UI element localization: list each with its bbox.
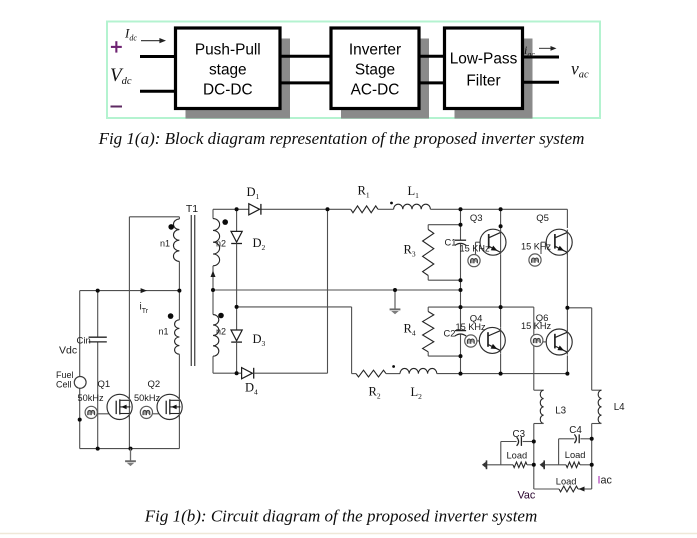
svg-text:Cin: Cin <box>77 336 91 347</box>
wire secondary bottom rail <box>213 372 242 374</box>
wire D4 riser to top rail <box>327 209 329 373</box>
dot polarity n2 upper <box>222 219 228 225</box>
svg-text:Q5: Q5 <box>536 213 549 224</box>
bottom rule <box>0 533 697 535</box>
arrow up on n2 lead <box>211 271 216 278</box>
wire Q4 emitter to bottom rail <box>500 353 502 373</box>
wire Low-Pass output lower <box>523 81 560 84</box>
svg-text:15 KHz: 15 KHz <box>521 321 552 331</box>
resistor R1 <box>351 206 378 213</box>
svg-text:Low-Pass: Low-Pass <box>450 51 518 68</box>
svg-text:n2: n2 <box>216 239 226 249</box>
ground arrow left 1 <box>486 460 488 469</box>
svg-text:D2: D2 <box>253 236 266 252</box>
dot polarity n2 lower <box>218 313 224 319</box>
pulse source 15KHz Q3 <box>468 255 480 267</box>
node Q3 collector rail <box>499 207 503 211</box>
diode D2 <box>231 231 242 242</box>
node Q3 collector <box>499 224 503 228</box>
capacitor C3 <box>517 437 519 446</box>
winding n1 upper <box>178 217 180 219</box>
pulse source 15KHz Q5 <box>529 254 541 266</box>
wire Inverter to Low-Pass lower <box>419 81 445 84</box>
svg-text:Vdc: Vdc <box>110 65 132 87</box>
ground center <box>394 290 396 309</box>
svg-text:Load: Load <box>565 450 586 460</box>
wire Push-Pull to Inverter upper <box>280 55 331 58</box>
wire primary top link <box>129 216 179 218</box>
svg-text:15 KHz: 15 KHz <box>456 322 487 332</box>
wire Cin branch lower <box>97 342 99 449</box>
resistor R3 with stubs <box>428 224 460 226</box>
svg-text:L4: L4 <box>614 402 625 413</box>
pulse source 50kHz Q2 <box>140 406 152 418</box>
block Inverter Stage AC-DC <box>331 28 419 109</box>
svg-text:R4: R4 <box>404 322 416 338</box>
wire Q5 emitter to mid rail <box>566 254 568 330</box>
load resistor 2 wire <box>544 464 566 466</box>
node C4 top <box>590 437 594 441</box>
inductor L4 <box>592 389 602 391</box>
node D1 anode <box>235 207 239 211</box>
inductor L3 <box>534 389 544 391</box>
svg-text:Q1: Q1 <box>98 379 111 390</box>
dot polarity n1 upper <box>168 224 174 230</box>
shadow of Push-Pull block <box>186 39 291 119</box>
wire Push-Pull to Inverter lower <box>280 81 331 84</box>
diode D1 <box>249 204 260 215</box>
node Cin bottom <box>96 447 100 451</box>
svg-text:Q2: Q2 <box>148 379 161 390</box>
transistor Q3 <box>480 229 506 255</box>
node R4 bottom <box>459 354 463 358</box>
svg-text:L3: L3 <box>555 406 566 417</box>
node rectifier output <box>326 207 330 211</box>
wire D2-D3 rail <box>237 306 352 308</box>
wire center-tap rail to ground and C-column <box>213 289 461 291</box>
load resistor 1 <box>513 462 527 468</box>
snubber column C1 C2 <box>460 209 462 240</box>
pulse source 15KHz Q6 <box>531 334 543 346</box>
wire fuel-cell left column <box>79 291 81 449</box>
node Q3 Q4 midpoint <box>499 305 503 309</box>
svg-text:Vac: Vac <box>518 490 536 502</box>
svg-text:stage: stage <box>209 62 247 79</box>
wire Q3 emitter to mid rail <box>500 255 502 328</box>
svg-text:50kHz: 50kHz <box>134 393 160 403</box>
wire bottom rail primary <box>80 448 180 450</box>
diode D4 <box>242 368 253 379</box>
ground arrow left 2 <box>543 460 545 469</box>
svg-text:L1: L1 <box>408 184 420 200</box>
node D4 anode <box>235 371 239 375</box>
wire top rail to inverter <box>430 208 567 210</box>
node D2 D3 junction <box>235 305 239 309</box>
svg-text:C2: C2 <box>444 329 456 339</box>
svg-text:DC-DC: DC-DC <box>203 82 253 99</box>
svg-text:Q3: Q3 <box>470 213 483 224</box>
wire Inverter to Low-Pass upper <box>419 55 445 58</box>
winding n1 lower <box>178 291 180 320</box>
node load2 out <box>590 463 594 467</box>
wire Vdc+ input to Push-Pull block <box>140 55 176 58</box>
label plus terminal <box>111 46 122 48</box>
svg-text:C1: C1 <box>445 238 457 248</box>
resistor R4 with stubs <box>428 306 460 308</box>
diode D3 <box>231 330 242 341</box>
load block C4 left side <box>558 439 560 465</box>
svg-text:50kHz: 50kHz <box>78 393 104 403</box>
node primary center tap <box>177 289 181 293</box>
svg-text:C4: C4 <box>569 425 582 436</box>
arrow on bottom load <box>579 487 585 492</box>
label minus terminal <box>111 106 123 108</box>
node center tap end <box>459 288 463 292</box>
node Cin top <box>96 289 100 293</box>
capacitor Cin <box>89 336 107 338</box>
svg-text:Stage: Stage <box>355 62 395 79</box>
svg-text:Iac: Iac <box>598 475 613 487</box>
inductor L2 <box>400 368 437 373</box>
wire Q1 drain from transformer top <box>128 217 130 449</box>
winding n2 lower <box>212 290 214 315</box>
svg-text:Idc: Idc <box>124 26 137 43</box>
capacitor C4 <box>574 434 576 443</box>
svg-text:L2: L2 <box>411 385 423 401</box>
svg-text:15 KHz: 15 KHz <box>521 242 552 252</box>
transistor Q4 <box>479 327 505 353</box>
wire Q5 collector column <box>566 209 568 228</box>
capacitor C1 <box>455 239 466 241</box>
wire Low-Pass output upper <box>523 56 560 59</box>
node C3 top <box>532 440 536 444</box>
wire center-tap rail primary <box>80 290 180 292</box>
svg-text:D3: D3 <box>253 332 266 348</box>
wire Q6 emitter to bottom rail <box>566 355 568 373</box>
wire Q3 collector column <box>500 209 502 229</box>
wire Cin branch upper <box>97 291 99 338</box>
svg-text:Load: Load <box>556 476 577 486</box>
transformer core T1 <box>190 215 192 366</box>
shadow of Inverter block <box>341 39 429 119</box>
svg-text:D1: D1 <box>247 185 260 201</box>
svg-text:n1: n1 <box>160 239 170 249</box>
svg-text:Push-Pull: Push-Pull <box>195 42 261 59</box>
transistor Q1 <box>107 394 132 419</box>
wire Vdc- input to Push-Pull block <box>140 90 176 93</box>
load resistor 3 <box>559 486 578 492</box>
ground bottom left <box>130 449 132 461</box>
rectifier column D2 D3 <box>236 209 238 231</box>
load resistor 1 wire <box>487 464 514 466</box>
node Q6 emitter <box>565 372 569 376</box>
dot polarity n1 lower <box>168 313 174 319</box>
node L2 out <box>459 372 463 376</box>
node Q5 Q6 midpoint <box>565 306 569 310</box>
load block C3 left side <box>500 442 502 465</box>
wire secondary top rail <box>213 208 249 210</box>
winding n2 upper <box>212 209 214 218</box>
wire mid rail A to L3 <box>461 306 534 308</box>
pulse source 50kHz Q1 <box>85 406 97 418</box>
node fuel cell lower <box>78 418 82 422</box>
svg-text:n1: n1 <box>158 327 168 337</box>
svg-text:D4: D4 <box>245 381 258 397</box>
wire inverter bottom rail <box>461 373 568 375</box>
inductor L1 <box>394 204 431 209</box>
svg-text:C3: C3 <box>513 429 526 440</box>
svg-text:Fig 1(b): Circuit diagram of t: Fig 1(b): Circuit diagram of the propose… <box>144 507 538 526</box>
node Q4 emitter <box>499 372 503 376</box>
svg-text:T1: T1 <box>186 203 198 215</box>
load block C4 top wire <box>559 438 575 440</box>
load resistor 2 <box>566 462 580 468</box>
transistor Q2 <box>157 394 182 419</box>
figure 1(a) frame <box>107 22 600 119</box>
arrow iTr on rail <box>141 288 147 293</box>
shadow of Low-Pass block <box>455 39 533 119</box>
svg-text:Cell: Cell <box>56 380 72 390</box>
wire mid rail B to L4 <box>567 307 591 309</box>
svg-text:R1: R1 <box>358 184 370 200</box>
svg-text:AC-DC: AC-DC <box>351 82 400 99</box>
load block C3 top wire <box>501 441 517 443</box>
capacitor C2 <box>455 330 466 332</box>
svg-text:iTr: iTr <box>140 302 149 315</box>
block Push-Pull stage DC-DC <box>176 28 281 109</box>
node R4 top <box>459 305 463 309</box>
svg-text:Fig 1(a): Block diagram repres: Fig 1(a): Block diagram representation o… <box>98 129 585 148</box>
node load1 out <box>532 463 536 467</box>
svg-text:Fuel: Fuel <box>56 370 74 380</box>
svg-text:Load: Load <box>507 451 528 461</box>
transistor Q5 <box>546 229 572 255</box>
svg-text:Filter: Filter <box>466 73 500 90</box>
svg-text:vac: vac <box>571 59 589 81</box>
svg-text:Vdc: Vdc <box>59 345 77 357</box>
node secondary center tap <box>211 288 215 292</box>
svg-text:n2: n2 <box>216 327 226 337</box>
dot polarity L2 <box>392 365 395 368</box>
wire riser to R2 <box>351 307 353 374</box>
node R3 top <box>459 223 463 227</box>
node ground bottom <box>129 447 133 451</box>
svg-text:Inverter: Inverter <box>349 42 401 59</box>
node R3 bottom <box>459 278 463 282</box>
transistor Q6 <box>546 329 572 355</box>
dot polarity L1 <box>390 202 393 205</box>
svg-text:15 KHz: 15 KHz <box>460 244 491 254</box>
pulse source 15KHz Q4 <box>465 335 477 347</box>
svg-text:R2: R2 <box>369 385 381 401</box>
svg-text:R3: R3 <box>404 243 416 259</box>
block Low-Pass Filter <box>445 28 523 109</box>
bottom load wire <box>534 488 559 490</box>
node top rail C column <box>459 207 463 211</box>
fuel cell source <box>74 377 86 389</box>
resistor R2 <box>352 373 356 375</box>
